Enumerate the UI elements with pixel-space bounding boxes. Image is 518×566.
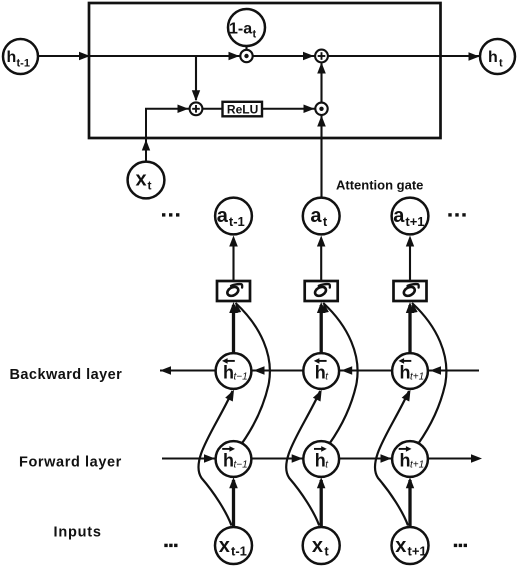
arrow sigma_t into a_t (317, 236, 326, 247)
node forward h_t (303, 441, 339, 477)
ReLU box (223, 102, 263, 117)
svg-text:t: t (253, 29, 257, 41)
svg-text:ReLU: ReLU (227, 102, 258, 116)
wire main h-path from h_t-1 to h_t (39, 55, 480, 57)
svg-text:t−1: t−1 (234, 460, 248, 471)
arrow curve into backward h_t-1 (225, 390, 234, 402)
node x_t (303, 527, 340, 564)
node a_t-1 (215, 198, 252, 235)
ellipsis mid right (448, 213, 451, 216)
wire curve forward h_t+1 to sigma_t+1 (412, 303, 446, 444)
plus1 add node (190, 102, 203, 115)
wire backward h_t up to sigma_t (320, 305, 323, 354)
arrow forward line right end (471, 454, 482, 463)
arrow curve into sigma_t+1 (411, 303, 418, 314)
wire x_t-1 up to forward h_t-1 (232, 480, 235, 527)
arrow curve into backward h_t+1 (402, 390, 411, 402)
label backward h_t (316, 360, 327, 362)
arrow backward h_t into sigma_t (317, 302, 326, 313)
svg-text:a: a (310, 205, 322, 227)
svg-text:x: x (395, 535, 406, 557)
svg-text:h: h (315, 363, 326, 383)
arrow into plus1 from left (178, 105, 189, 114)
wire curve x_t+1 to backward h_t+1 (375, 391, 409, 526)
arrow into cell box (79, 52, 90, 60)
arrow curve into backward h_t (313, 390, 322, 402)
arrow into backward h_t+1 (430, 366, 441, 375)
svg-text:h: h (7, 49, 17, 66)
svg-text:t+1: t+1 (410, 372, 424, 383)
svg-text:Forward layer: Forward layer (19, 455, 122, 471)
wire backward layer line (160, 369, 479, 371)
arrow into forward h_t-1 (204, 454, 215, 463)
svg-text:1-a: 1-a (229, 21, 252, 38)
node x_t-1 (215, 527, 252, 564)
arrow into h_t (469, 52, 480, 61)
plus2 add node (315, 50, 328, 63)
odot2 multiply node (315, 103, 327, 115)
sigma box t+1 (394, 281, 427, 301)
ellipsis bottom right (454, 544, 457, 547)
svg-text:a: a (217, 205, 229, 227)
wire sigma_t-1 up to a_t-1 (232, 239, 234, 282)
wire sigma_t+1 up to a_t+1 (409, 239, 411, 282)
arrow sigma_t-1 into a_t-1 (229, 236, 238, 247)
node backward h_t (303, 353, 339, 389)
label backward h_t-1 (224, 360, 235, 362)
wire curve forward h_t to sigma_t (323, 303, 357, 444)
svg-text:x: x (312, 535, 323, 557)
arrow a_t into odot2 (317, 116, 326, 127)
wire 1-a_t to odot1 (245, 44, 247, 51)
arrow x_t-1 into forward h_t-1 (229, 477, 238, 488)
arrow branch into plus1 top (192, 90, 200, 101)
svg-text:t-1: t-1 (229, 214, 245, 229)
node a_t (303, 198, 340, 235)
svg-text:t+1: t+1 (408, 544, 427, 559)
node backward h_t-1 (216, 353, 252, 389)
wire forward layer line (162, 457, 479, 459)
sigma box t (305, 281, 338, 301)
node a_t+1 (392, 198, 429, 235)
arrow backward h_t-1 into sigma_t-1 (229, 302, 238, 313)
svg-text:h: h (315, 451, 326, 471)
odot1 multiply node (240, 50, 252, 62)
svg-text:h: h (223, 363, 234, 383)
arrow x_t into cell box (142, 140, 150, 151)
svg-text:x: x (136, 169, 147, 191)
wire curve x_t-1 to backward h_t-1 (198, 391, 232, 526)
node x_t input to cell (128, 162, 165, 199)
label forward h_t+1 (399, 448, 410, 450)
arrow into backward h_t (341, 366, 352, 375)
ellipsis bottom left (164, 544, 167, 547)
label forward h_t-1 (222, 448, 233, 450)
svg-text:Backward layer: Backward layer (10, 367, 123, 383)
wire branch down to plus1 node (195, 56, 197, 100)
svg-text:h: h (400, 451, 411, 471)
arrow x_t+1 into forward h_t+1 (406, 477, 414, 488)
svg-text:t: t (323, 214, 328, 229)
label forward h_t (314, 448, 325, 450)
node forward h_t-1 (216, 441, 252, 477)
arrow into backward h_t-1 (254, 366, 265, 375)
svg-text:t: t (499, 58, 503, 70)
arrow sigma_t+1 into a_t+1 (406, 236, 414, 247)
node h_t-1 (3, 39, 38, 74)
sigma box t-1 (217, 281, 250, 301)
wire x_t+1 up to forward h_t+1 (408, 480, 411, 527)
arrow into forward h_t (292, 454, 303, 463)
arrow curve into sigma_t (322, 303, 329, 314)
node x_t+1 (392, 527, 429, 564)
arrow into plus2 from left (303, 52, 314, 60)
wire backward h_t+1 up to sigma_t+1 (408, 305, 411, 354)
svg-text:x: x (219, 535, 230, 557)
svg-text:h: h (223, 451, 234, 471)
sigma glyph t (314, 285, 328, 298)
arrow curve into sigma_t-1 (234, 303, 241, 314)
svg-text:t−1: t−1 (234, 372, 248, 383)
sigma glyph t-1 (226, 285, 240, 298)
arrow backward line left end (160, 366, 171, 375)
svg-text:h: h (400, 363, 411, 383)
node h_t (480, 39, 515, 74)
node backward h_t+1 (392, 353, 428, 389)
svg-text:a: a (393, 205, 405, 227)
svg-text:t+1: t+1 (410, 460, 424, 471)
svg-text:t-1: t-1 (17, 58, 30, 70)
arrow x_t into forward h_t (317, 477, 326, 488)
cell box (89, 3, 441, 138)
node forward h_t+1 (392, 441, 428, 477)
arrow into odot1 (229, 52, 240, 60)
svg-text:t: t (148, 179, 152, 193)
wire a_t up through odot2 to plus2 (320, 64, 322, 198)
wire x_t up to forward h_t (320, 480, 323, 527)
svg-text:t: t (324, 544, 329, 559)
wire backward h_t-1 up to sigma_t-1 (232, 305, 235, 354)
arrow backward h_t+1 into sigma_t+1 (406, 302, 414, 313)
label backward h_t+1 (401, 360, 412, 362)
wire curve forward h_t-1 to sigma_t-1 (236, 303, 270, 444)
svg-text:h: h (488, 49, 498, 66)
svg-text:Inputs: Inputs (54, 525, 102, 541)
wire sigma_t up to a_t (320, 239, 322, 282)
wire x_t to plus1 node via corner (146, 109, 316, 162)
arrow ReLU into odot2 (304, 105, 315, 114)
arrow odot2 up into plus2 (317, 63, 326, 74)
svg-text:t+1: t+1 (405, 214, 424, 229)
wire curve x_t to backward h_t (286, 391, 320, 526)
svg-text:t-1: t-1 (231, 544, 247, 559)
arrow into forward h_t+1 (381, 454, 392, 463)
node 1-a_t (228, 9, 265, 46)
sigma glyph t+1 (402, 285, 416, 298)
svg-text:Attention gate: Attention gate (336, 178, 423, 193)
ellipsis mid left (162, 213, 165, 216)
